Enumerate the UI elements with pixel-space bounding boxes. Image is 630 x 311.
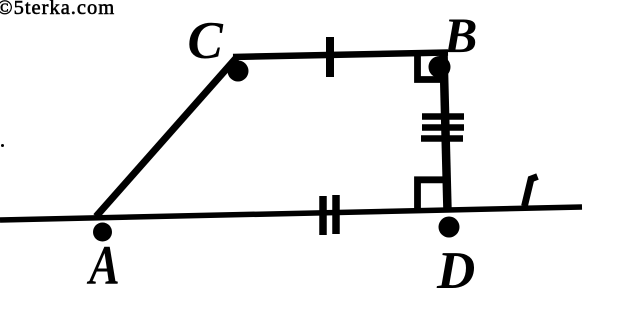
svg-text:A: A (86, 235, 119, 297)
svg-text:©5terka.com: ©5terka.com (0, 0, 115, 19)
svg-text:B: B (443, 7, 477, 63)
svg-text:C: C (188, 12, 224, 70)
svg-text:D: D (436, 242, 475, 300)
